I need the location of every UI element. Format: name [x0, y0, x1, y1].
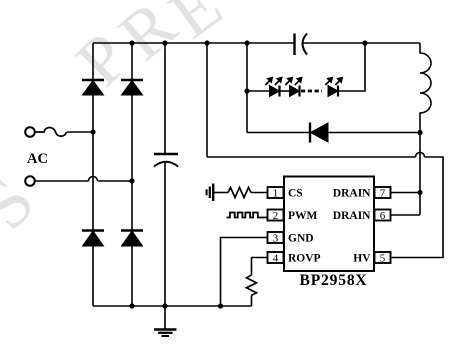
wire freewheel diode line left [247, 132, 309, 134]
pin 5 box [375, 252, 391, 265]
ground (main, bottom) [154, 330, 177, 337]
wire GND pin 3 trace [221, 238, 268, 307]
svg-text:7: 7 [380, 188, 386, 200]
wire top AC line from fuse to bridge [67, 131, 93, 133]
diode D2 (bridge upper right) [121, 80, 143, 95]
wire HV horizontal line to hop [207, 156, 416, 158]
wire HV feed leg x=207 down from top rail [206, 43, 208, 157]
diode D1 (bridge upper left) [82, 80, 104, 95]
wire bridge left leg x=93 [92, 43, 94, 306]
svg-text:4: 4 [273, 253, 279, 265]
svg-text:DRAIN: DRAIN [333, 188, 371, 200]
node dot inductor bottom [417, 130, 422, 135]
node dots top rail [129, 40, 367, 45]
AC terminal bottom [25, 176, 35, 186]
wire electrolytic cap leg x=165 [164, 43, 166, 306]
wire ground stem [164, 306, 166, 329]
svg-text:5: 5 [380, 253, 386, 265]
wire HV line after hop [391, 157, 444, 258]
pin 2 box [268, 210, 284, 223]
wire hop over left bridge leg [89, 177, 98, 182]
LED2 [290, 86, 300, 97]
svg-text:1: 1 [273, 188, 279, 200]
svg-text:DRAIN: DRAIN [333, 210, 371, 222]
wire pin 6 drain trace [391, 214, 421, 216]
svg-text:S: S [0, 164, 50, 244]
wire bottom AC line after hop [98, 180, 133, 182]
LED3 [328, 86, 338, 97]
wire bottom rail [93, 305, 252, 307]
pin 4 box [268, 252, 284, 265]
wire bridge right leg x=132 [131, 43, 133, 306]
svg-text:ROVP: ROVP [288, 253, 321, 265]
wire ROVP pin 4 trace [252, 258, 268, 276]
pin 7 box [375, 187, 391, 200]
wire freewheel diode line right [328, 132, 420, 134]
wire LED3 to right corner and up to top rail [339, 43, 366, 91]
svg-text:HV: HV [353, 253, 371, 265]
fuse F1 [35, 128, 67, 137]
diode D3 (bridge lower left) [82, 231, 104, 247]
svg-text:CS: CS [288, 188, 303, 200]
wire LED1 to LED2 [280, 90, 290, 92]
ground (CS network, rotated) [207, 184, 214, 202]
LED emission arrows [265, 77, 342, 85]
op-amp U1 BP2958X IC body [284, 177, 374, 272]
AC terminal top [25, 127, 35, 137]
svg-text:GND: GND [288, 233, 314, 245]
capacitor C1 (electrolytic, bus) [154, 154, 178, 167]
LED string dashed continuation [301, 90, 322, 93]
svg-text:PWM: PWM [288, 210, 318, 222]
inductor L1 [420, 43, 431, 133]
capacitor C2 (series, top rail) [295, 34, 308, 56]
resistor R2 (ROVP) [247, 275, 257, 295]
wire bottom AC line to hop [35, 180, 89, 182]
pin 3 box [268, 232, 284, 245]
wire ROVP resistor to bottom rail [251, 295, 253, 306]
svg-text:2: 2 [273, 210, 279, 222]
wire LED string start [247, 90, 270, 92]
node dot LED branch [244, 88, 249, 93]
wire LED/diode branch leg x=247 [246, 43, 248, 133]
wire drain vertical x=420 [419, 133, 421, 216]
wire CS ground to resistor [214, 192, 228, 194]
node dot pin 7 [417, 190, 422, 195]
pin 1 box [268, 187, 284, 200]
wire top rail right segment [303, 42, 420, 44]
diode D5 (freewheel) [310, 123, 328, 143]
wire pin 7 drain trace [391, 192, 421, 194]
wire CS resistor to pin 1 [251, 192, 268, 194]
svg-text:BP2958X: BP2958X [300, 272, 368, 289]
PWM waveform symbol [227, 213, 269, 218]
wire hop over drain line [416, 153, 425, 158]
diode D4 (bridge lower right) [121, 231, 143, 247]
pin 6 box [375, 210, 391, 223]
LED1 [270, 86, 280, 97]
node dots bottom rail [129, 303, 223, 308]
wire top rail left segment [93, 42, 294, 44]
node dot fuse/bridge [90, 129, 95, 134]
resistor R1 (CS) [228, 188, 251, 198]
svg-text:AC: AC [27, 151, 48, 167]
svg-text:6: 6 [380, 210, 386, 222]
svg-text:3: 3 [273, 233, 279, 245]
node dot AC bottom/bridge [129, 178, 134, 183]
